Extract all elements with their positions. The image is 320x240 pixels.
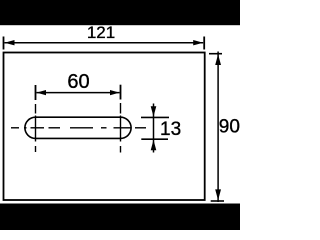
top margin bar	[0, 0, 240, 25]
slot horizontal centerline	[11, 127, 146, 129]
dimension 60: left arrowhead	[37, 90, 47, 95]
dimension 60: right tick	[120, 85, 122, 100]
slot (stadium)	[25, 117, 131, 138]
dimension 90: bottom arrowhead	[215, 189, 221, 200]
dimension 90: line	[217, 52, 219, 203]
dimension 13: bottom extension line	[141, 138, 168, 140]
white background	[0, 0, 240, 230]
dimension 13: vertical line	[153, 104, 155, 153]
bottom margin bar	[0, 204, 240, 231]
dimension 13: up arrowhead	[151, 140, 157, 150]
dimension 90: top arrowhead	[215, 54, 221, 65]
svg-text:60: 60	[67, 71, 89, 93]
svg-text:121: 121	[87, 23, 115, 42]
svg-text:13: 13	[160, 119, 181, 140]
dimension 60: line	[37, 92, 120, 94]
dimension 121: left arrowhead	[5, 40, 15, 45]
dimension 60: right arrowhead	[110, 90, 120, 95]
dimension 90: bottom extension line	[211, 200, 224, 202]
svg-text:90: 90	[219, 116, 240, 137]
plate outline	[4, 53, 205, 201]
dimension 13: down arrowhead	[151, 106, 157, 116]
dimension 121: left tick	[3, 37, 5, 50]
dimension 60: left tick	[35, 85, 37, 100]
slot right vertical centerline / extension	[120, 103, 122, 153]
dimension 121: right arrowhead	[193, 40, 203, 45]
dimension 13: top extension line	[141, 116, 169, 118]
dimension 90: top extension line	[209, 53, 222, 55]
dimension 121: right tick	[203, 37, 205, 50]
dimension 121: line	[5, 42, 204, 44]
slot left vertical centerline / extension	[35, 104, 37, 152]
